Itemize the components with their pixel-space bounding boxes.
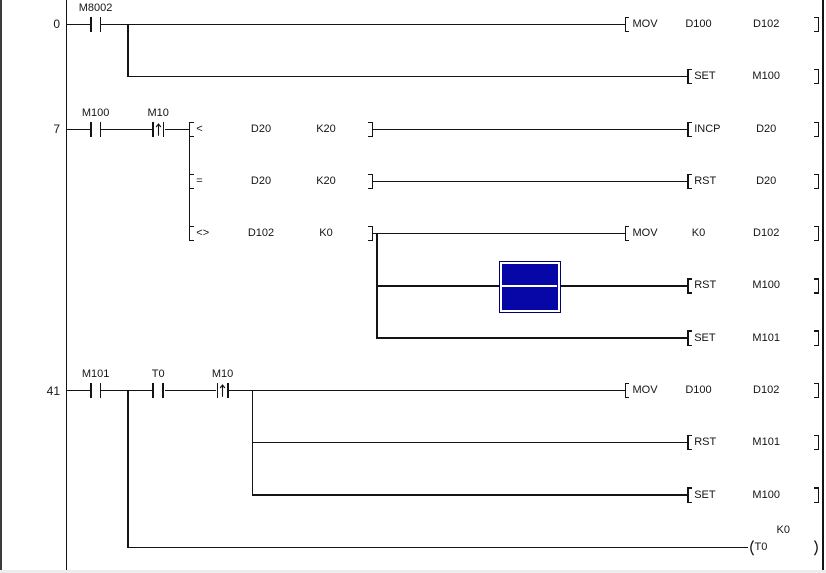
- timer coil device T0: [755, 542, 768, 554]
- contact M10 rising pulse: [123, 108, 193, 120]
- operand D100 MOV D100 D102 rung0: [669, 19, 729, 31]
- compare branch vertical wire: [189, 129, 190, 233]
- operand D20 INCP D20: [736, 124, 796, 136]
- step number 7: [20, 123, 60, 136]
- wire branch to SET M100 rung41: [252, 494, 688, 495]
- wire branch to SET M101: [376, 337, 687, 338]
- compare close bracket NE D102 K0: [372, 226, 374, 241]
- wire compare EQ to RST: [372, 181, 687, 182]
- compare operand K20 LT D20 K20: [296, 124, 356, 136]
- compare operand D20 LT D20 K20: [231, 124, 291, 136]
- contact M10 rising pulse rung41: [188, 369, 258, 381]
- right power rail: [822, 0, 824, 570]
- operand D20 RST D20: [736, 176, 796, 188]
- timer value K0: [740, 525, 790, 537]
- instruction close bracket MOV K0 D102: [818, 226, 820, 241]
- instruction close bracket MOV D100 D102 rung41: [818, 383, 820, 398]
- edit cursor blue block: [499, 261, 561, 313]
- compare operator &lt;&gt; NE D102 K0: [196, 228, 209, 240]
- instruction open bracket SET M100 rung41: [687, 487, 689, 502]
- compare operator = EQ D20 K20: [196, 176, 202, 188]
- compare operand D102 NE D102 K0: [231, 228, 291, 240]
- compare open bracket NE D102 K0: [189, 226, 191, 241]
- instruction close bracket RST M101: [818, 435, 820, 450]
- instruction close bracket MOV D100 D102 rung0: [818, 17, 820, 32]
- wire branch to SET M100: [127, 76, 687, 77]
- instruction close bracket SET M100 rung41: [818, 487, 820, 502]
- operand M100 RST M100: [736, 280, 796, 292]
- contact M100: [61, 108, 131, 120]
- operand D102 MOV D100 D102 rung41: [736, 385, 796, 397]
- instruction close bracket INCP D20: [818, 122, 820, 137]
- wire contact M10 to compare block: [165, 129, 190, 130]
- instruction close bracket RST D20: [818, 174, 820, 189]
- compare operand D20 EQ D20 K20: [231, 176, 291, 188]
- left power rail: [66, 0, 68, 570]
- instruction open bracket SET M100 rung0: [687, 69, 689, 84]
- branch wire down from NE output: [376, 234, 377, 338]
- operand D102 MOV D100 D102 rung0: [736, 19, 796, 31]
- instruction open bracket RST M101: [687, 435, 689, 450]
- instruction close bracket SET M101: [818, 330, 820, 345]
- wire branch to RST M101: [252, 442, 688, 443]
- contact T0: [123, 369, 193, 381]
- instruction close bracket SET M100 rung0: [818, 69, 820, 84]
- instruction open bracket SET M101: [687, 330, 689, 345]
- wire compare LT to INCP: [372, 129, 687, 130]
- wire branch to timer coil T0: [127, 547, 748, 548]
- compare operator &lt; LT D20 K20: [196, 124, 202, 136]
- operand M100 SET M100 rung41: [736, 490, 796, 502]
- instruction name SET SET M100 rung0: [694, 71, 715, 83]
- wire rail to contact M101: [66, 390, 91, 391]
- compare operand K0 NE D102 K0: [296, 228, 356, 240]
- instruction name RST RST D20: [694, 176, 716, 188]
- operand M101 SET M101: [736, 333, 796, 345]
- operand K0 MOV K0 D102: [669, 228, 729, 240]
- branch wire down to timer coil row: [127, 391, 128, 548]
- contact M8002: [61, 3, 131, 15]
- instruction open bracket RST M100: [687, 278, 689, 293]
- branch wire down from rung 0: [127, 25, 128, 77]
- wire rail to contact M100: [66, 129, 91, 130]
- instruction open bracket MOV D100 D102 rung0: [625, 17, 627, 32]
- timer coil right parenthesis: [813, 540, 821, 556]
- step number 0: [20, 18, 60, 31]
- wire contact M101 to contact T0: [101, 390, 152, 391]
- timer coil T0 left parenthesis: [747, 540, 755, 556]
- operand M100 SET M100 rung0: [736, 71, 796, 83]
- instruction name SET SET M100 rung41: [694, 490, 715, 502]
- wire contact M100 to contact M10: [101, 129, 152, 130]
- step number 41: [20, 385, 60, 398]
- wire compare NE to MOV: [372, 233, 625, 234]
- instruction name MOV MOV D100 D102 rung41: [633, 385, 658, 397]
- wire contact M8002 to MOV: [101, 24, 626, 25]
- instruction open bracket MOV D100 D102 rung41: [625, 383, 627, 398]
- left window border: [0, 0, 2, 570]
- instruction name MOV MOV D100 D102 rung0: [633, 19, 658, 31]
- compare close bracket LT D20 K20: [372, 122, 374, 137]
- instruction open bracket RST D20: [687, 174, 689, 189]
- branch wire down from rung 41: [252, 391, 253, 495]
- compare open bracket LT D20 K20: [189, 122, 191, 137]
- wire contact T0 to contact M10: [165, 390, 217, 391]
- instruction name SET SET M101: [694, 333, 715, 345]
- compare open bracket EQ D20 K20: [189, 174, 191, 189]
- operand D100 MOV D100 D102 rung41: [669, 385, 729, 397]
- compare operand K20 EQ D20 K20: [296, 176, 356, 188]
- contact M101: [61, 369, 131, 381]
- operand D102 MOV K0 D102: [736, 228, 796, 240]
- instruction open bracket INCP D20: [687, 122, 689, 137]
- wire contact M10 to MOV rung41: [229, 390, 626, 391]
- instruction open bracket MOV K0 D102: [625, 226, 627, 241]
- instruction name INCP INCP D20: [694, 124, 720, 136]
- instruction name RST RST M101: [694, 437, 716, 449]
- window bottom edge: [0, 570, 826, 573]
- wire rail to contact M8002: [66, 24, 91, 25]
- instruction name RST RST M100: [694, 280, 716, 292]
- instruction name MOV MOV K0 D102: [633, 228, 658, 240]
- wire branch to RST M100: [376, 285, 687, 286]
- compare close bracket EQ D20 K20: [372, 174, 374, 189]
- instruction close bracket RST M100: [818, 278, 820, 293]
- operand M101 RST M101: [736, 437, 796, 449]
